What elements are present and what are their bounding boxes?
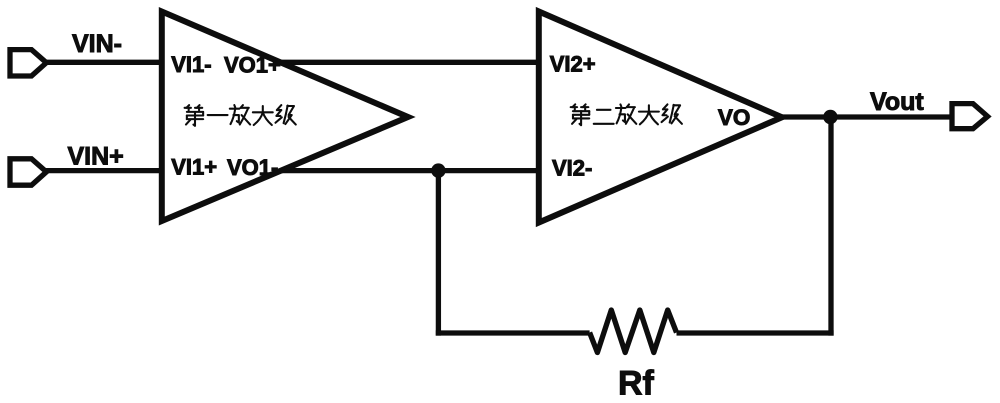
svg-text:VO: VO — [718, 105, 751, 130]
svg-text:VO1-: VO1- — [227, 155, 278, 180]
svg-text:VI2+: VI2+ — [550, 52, 596, 77]
svg-text:Rf: Rf — [618, 365, 655, 403]
svg-text:VIN-: VIN- — [72, 30, 122, 58]
svg-text:VI2-: VI2- — [552, 156, 592, 181]
svg-text:Vout: Vout — [870, 88, 924, 116]
svg-text:VIN+: VIN+ — [68, 142, 124, 170]
svg-text:VO1+: VO1+ — [224, 53, 281, 78]
svg-text:VI1+: VI1+ — [171, 155, 217, 180]
svg-text:VI1-: VI1- — [171, 52, 211, 77]
